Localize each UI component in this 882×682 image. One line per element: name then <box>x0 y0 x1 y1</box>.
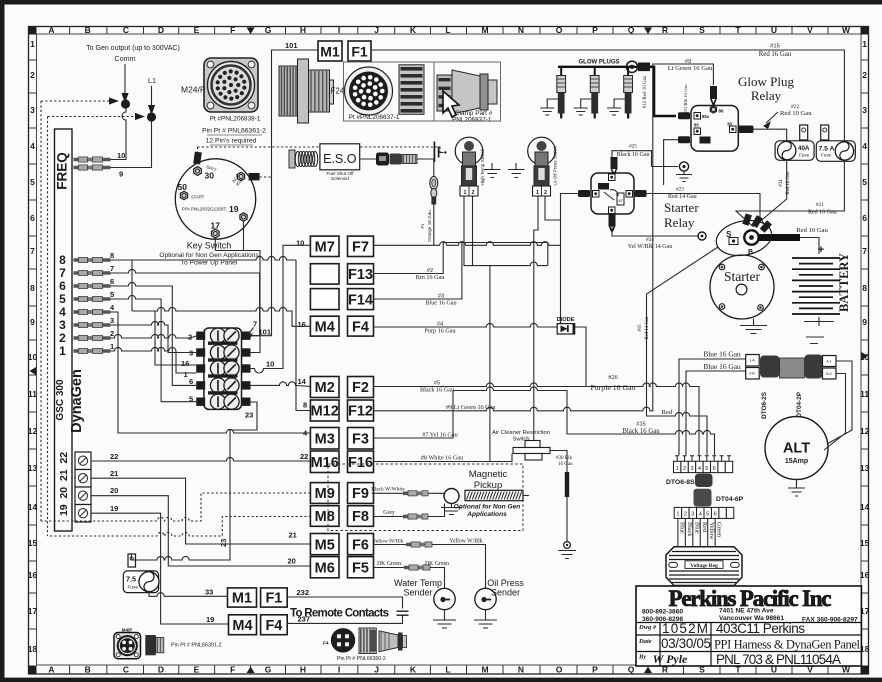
svg-text:G: G <box>265 665 272 675</box>
title block frame <box>636 586 861 666</box>
svg-text:N: N <box>518 25 524 35</box>
svg-text:Sender: Sender <box>403 588 432 598</box>
connector F16 box <box>348 451 374 473</box>
svg-text:1052M: 1052M <box>662 621 708 636</box>
svg-text:Lo Oil Press Switch: Lo Oil Press Switch <box>553 145 558 185</box>
svg-text:Purple 16 Gau: Purple 16 Gau <box>590 383 635 392</box>
svg-text:M16: M16 <box>311 455 339 471</box>
terminal block row 1 <box>196 332 205 340</box>
svg-text:F12: F12 <box>348 404 373 420</box>
svg-text:#25: #25 <box>629 144 637 150</box>
svg-text:8: 8 <box>30 283 35 293</box>
svg-text:To Remote Contacts: To Remote Contacts <box>290 608 389 620</box>
svg-text:15: 15 <box>860 538 870 548</box>
svg-text:4: 4 <box>59 305 66 319</box>
switch S2 lo oil press switch <box>528 137 556 165</box>
connector M1 plug drawing (ribbed cylinder) <box>279 66 298 116</box>
svg-text:M5: M5 <box>315 537 335 553</box>
svg-text:232: 232 <box>297 588 310 597</box>
wire 10 from FREQ to Comm node <box>111 108 127 160</box>
svg-text:101: 101 <box>259 328 272 337</box>
svg-text:1: 1 <box>30 39 35 49</box>
svg-text:B: B <box>85 25 91 35</box>
svg-text:Red 16 Gau: Red 16 Gau <box>808 210 837 216</box>
svg-text:403C11 Perkins: 403C11 Perkins <box>716 621 805 636</box>
svg-text:7: 7 <box>862 246 867 256</box>
svg-text:Yel W/Blk 14 Gau: Yel W/Blk 14 Gau <box>628 244 672 250</box>
svg-text:#26: #26 <box>608 374 618 381</box>
svg-text:F4: F4 <box>265 618 282 634</box>
svg-text:U: U <box>771 25 777 35</box>
connector M5 box <box>310 534 339 555</box>
svg-text:5: 5 <box>862 177 867 187</box>
svg-text:19: 19 <box>206 615 214 624</box>
svg-text:Pin Pt # PNL66360-2: Pin Pt # PNL66360-2 <box>337 656 386 662</box>
wire row4 to M3 <box>111 312 311 433</box>
E.S.O pigtail connectors <box>360 158 378 160</box>
svg-text:I: I <box>338 25 340 35</box>
svg-text:800-892-3860: 800-892-3860 <box>642 609 683 616</box>
key switch terminal 30 <box>194 167 202 176</box>
wire #12 thick from bus to glow relay <box>650 67 676 116</box>
capacitor symbol at E.S.O wire <box>434 142 438 163</box>
svg-text:P: P <box>592 25 598 35</box>
wire dashed to M8 <box>48 517 312 537</box>
svg-text:7401 NE 47th Ave: 7401 NE 47th Ave <box>719 608 774 615</box>
svg-text:Air Cleaner Restriction: Air Cleaner Restriction <box>492 430 550 436</box>
svg-text:GLOW PLUGS: GLOW PLUGS <box>579 60 620 66</box>
connector F24 box <box>344 62 501 121</box>
svg-text:12: 12 <box>860 426 870 436</box>
terminal strip row upper (DT06-8S) <box>674 456 733 473</box>
svg-text:Date: Date <box>638 638 652 645</box>
svg-text:M7: M7 <box>315 240 335 256</box>
DynaGen terminal numbers 8-1 <box>59 253 66 358</box>
connector F8 box <box>348 506 374 527</box>
connector M7 box <box>310 236 339 256</box>
key switch ACC plug <box>249 173 260 180</box>
svg-text:Fuse: Fuse <box>799 153 810 158</box>
svg-text:1: 1 <box>862 39 867 49</box>
svg-text:Green: Green <box>716 522 723 537</box>
svg-text:4: 4 <box>698 466 701 472</box>
svg-text:22: 22 <box>300 452 308 461</box>
svg-text:7: 7 <box>253 320 257 329</box>
wire #34 40A fuse to starter solenoid <box>757 160 787 224</box>
fuse 7.5A bottom left <box>123 571 158 593</box>
ground stub right <box>508 163 525 178</box>
svg-text:DK Green: DK Green <box>377 561 401 567</box>
svg-text:O: O <box>556 25 563 35</box>
svg-text:#15: #15 <box>636 422 645 428</box>
svg-text:Red 16 Gau: Red 16 Gau <box>759 51 792 58</box>
svg-text:5: 5 <box>30 177 35 187</box>
svg-text:20: 20 <box>288 557 296 566</box>
svg-text:M: M <box>481 25 488 35</box>
svg-text:#21: #21 <box>816 202 824 208</box>
starter solenoid <box>713 216 774 260</box>
ring terminal and ground for #25 <box>679 162 688 171</box>
svg-text:1: 1 <box>464 190 467 196</box>
svg-text:10: 10 <box>117 151 125 160</box>
FREQ / GSC300 DynaGen box <box>55 129 73 531</box>
svg-text:#24: #24 <box>646 237 654 243</box>
svg-text:B-2: B-2 <box>826 372 832 376</box>
glow relay terminal 85a plug <box>694 113 701 120</box>
svg-text:11: 11 <box>28 389 37 399</box>
svg-text:F2: F2 <box>352 380 369 396</box>
svg-text:13: 13 <box>860 463 870 473</box>
svg-text:M1: M1 <box>320 44 340 60</box>
connector M9 box <box>310 483 339 504</box>
svg-text:Blue: Blue <box>678 522 685 534</box>
svg-text:Sender: Sender <box>491 588 520 598</box>
svg-text:K: K <box>410 25 417 35</box>
relay K2 starter relay body <box>591 173 634 214</box>
svg-text:W: W <box>842 25 851 35</box>
svg-text:6: 6 <box>30 213 35 223</box>
wire M9 black w/white to magnetic pickup <box>372 493 444 496</box>
svg-text:F4: F4 <box>352 319 369 335</box>
svg-text:C: C <box>123 665 129 675</box>
key switch terminal BATT plug <box>193 152 202 165</box>
wire F13 #2 Brn to lo oil switch <box>374 243 548 274</box>
svg-text:Black 16 Gau: Black 16 Gau <box>617 152 650 158</box>
svg-text:E: E <box>194 665 200 675</box>
svg-text:#15: #15 <box>770 44 780 50</box>
svg-text:H: H <box>300 25 306 35</box>
bullet splice on E.S.O wire <box>430 177 438 190</box>
connector F3 box <box>348 428 374 450</box>
svg-text:Comm: Comm <box>114 54 135 63</box>
connector F2 box <box>348 377 374 398</box>
svg-text:6: 6 <box>59 279 66 293</box>
wire F3 #7 Yel <box>374 391 454 439</box>
starter relay right pin and plug <box>626 191 633 198</box>
svg-text:Red 14 Gau: Red 14 Gau <box>645 316 650 340</box>
svg-text:L1: L1 <box>148 76 156 85</box>
svg-text:Brn 16 Gau: Brn 16 Gau <box>416 274 445 281</box>
wire row5 to block row5 <box>111 295 197 401</box>
svg-text:A: A <box>48 25 54 35</box>
crimp terminal row 1 <box>74 349 111 353</box>
screw terminal 19 <box>75 505 91 523</box>
svg-text:O: O <box>556 665 563 675</box>
screw terminal 21 <box>75 470 91 488</box>
svg-text:R: R <box>662 25 668 35</box>
alternator ALT <box>765 417 828 480</box>
svg-text:#12 Red 10 Gau: #12 Red 10 Gau <box>643 75 648 108</box>
svg-text:6: 6 <box>189 377 193 386</box>
svg-text:To Gen output (up to 300VAC): To Gen output (up to 300VAC) <box>86 45 180 52</box>
svg-text:23: 23 <box>219 539 228 547</box>
svg-text:M8: M8 <box>315 509 335 525</box>
svg-text:22: 22 <box>58 452 70 464</box>
wire 33 from fuse to M1 bottom <box>149 592 228 596</box>
wire 8 horizontal from crimp row 8 to vertical <box>132 256 296 260</box>
wire dashed from border to L1 node <box>48 116 135 118</box>
svg-text:Blue 16 Gau: Blue 16 Gau <box>425 300 456 307</box>
connector M3 box <box>310 428 339 450</box>
spade terminal above 40A fuse <box>800 125 808 140</box>
svg-text:H: H <box>300 665 306 675</box>
svg-text:F5: F5 <box>352 560 369 576</box>
svg-text:Yellow W/Blk: Yellow W/Blk <box>373 539 404 545</box>
svg-text:P: P <box>592 665 598 675</box>
svg-text:1: 1 <box>59 344 66 358</box>
glow plug bus bar <box>558 66 640 68</box>
grid band centre arrows <box>247 28 255 35</box>
svg-text:8: 8 <box>59 253 66 267</box>
connector M4/P bottom flange <box>114 633 141 659</box>
svg-text:F13: F13 <box>348 267 373 283</box>
ground stub below link <box>564 542 571 549</box>
svg-text:14: 14 <box>28 502 38 512</box>
starter relay bottom pin and plug <box>609 207 616 214</box>
svg-text:FREQ: FREQ <box>55 152 70 190</box>
ground below starter <box>740 319 767 334</box>
connector F14 box <box>348 289 374 310</box>
mouse cursor artifact <box>443 91 459 117</box>
svg-text:PPI Harness & DynaGen Panel: PPI Harness & DynaGen Panel <box>714 638 861 652</box>
svg-text:19: 19 <box>58 504 70 516</box>
svg-text:DTO6-8S: DTO6-8S <box>666 479 695 486</box>
svg-text:Fuse: Fuse <box>128 585 139 591</box>
svg-text:8: 8 <box>303 401 307 410</box>
wire row3 to block row2 <box>111 321 197 352</box>
svg-text:Pt #PNL206838-1: Pt #PNL206838-1 <box>210 116 261 123</box>
svg-text:7: 7 <box>110 264 114 273</box>
svg-text:2: 2 <box>59 331 66 345</box>
ground for glow plug <box>540 99 558 115</box>
svg-text:J: J <box>374 25 379 35</box>
svg-text:F9: F9 <box>352 486 369 502</box>
svg-text:8: 8 <box>110 251 114 260</box>
screw terminal 22 <box>75 452 91 470</box>
svg-text:Oil Press: Oil Press <box>487 578 524 588</box>
svg-text:DIODE: DIODE <box>557 317 575 323</box>
svg-text:#34: #34 <box>779 179 784 187</box>
svg-text:M4: M4 <box>232 618 252 634</box>
connector unlabeled box <box>310 289 339 310</box>
connector M6 box <box>310 557 339 578</box>
svg-text:DT04-6P: DT04-6P <box>716 496 744 503</box>
svg-text:3: 3 <box>30 105 35 115</box>
svg-text:3: 3 <box>691 512 694 518</box>
svg-text:2: 2 <box>472 190 475 196</box>
svg-text:N: N <box>518 665 524 675</box>
svg-text:85: 85 <box>694 123 699 128</box>
svg-text:5: 5 <box>110 290 114 299</box>
ground below ALT <box>788 480 805 497</box>
svg-text:D: D <box>158 25 164 35</box>
svg-text:16: 16 <box>860 570 870 580</box>
ground below Water Temp sender <box>433 610 456 628</box>
svg-text:FAX 360-906-8297: FAX 360-906-8297 <box>802 617 858 624</box>
svg-text:PNL206837-1: PNL206837-1 <box>452 117 492 124</box>
wire F12 #9 Lt Green to glow plug relay <box>374 64 714 411</box>
svg-text:M9: M9 <box>315 486 335 502</box>
svg-text:10: 10 <box>266 360 274 369</box>
svg-text:M4: M4 <box>315 319 335 335</box>
connector F12 box <box>348 400 374 421</box>
svg-text:#7 Yel 16 Gau: #7 Yel 16 Gau <box>422 432 457 439</box>
svg-text:3: 3 <box>110 316 114 325</box>
wire Blue 16 Gau pair to DT connector <box>679 359 746 455</box>
glow relay terminal 86 and plug <box>710 106 716 113</box>
relay K1 glow plug relay body <box>691 106 738 152</box>
solenoid B terminal <box>744 230 758 244</box>
svg-text:Red 10 Gau: Red 10 Gau <box>796 227 828 234</box>
wire from collector down to air cleaner line <box>489 266 491 462</box>
solenoid studs <box>742 213 752 225</box>
svg-text:2: 2 <box>683 466 686 472</box>
wire F4 #4 Purp to diode <box>374 323 558 327</box>
svg-text:2: 2 <box>862 70 867 80</box>
connector M4/P backshell <box>145 635 156 655</box>
svg-text:10: 10 <box>860 352 870 362</box>
svg-text:F8: F8 <box>352 509 369 525</box>
svg-text:6: 6 <box>110 277 114 286</box>
svg-text:I: I <box>338 665 340 675</box>
svg-text:10: 10 <box>296 239 304 248</box>
svg-text:F3: F3 <box>352 431 369 447</box>
sender Water Temp <box>434 588 455 609</box>
svg-text:B: B <box>748 249 753 256</box>
svg-text:Water Temp: Water Temp <box>394 578 442 588</box>
svg-text:9: 9 <box>30 317 35 327</box>
svg-text:Purp 16 Gau: Purp 16 Gau <box>424 328 455 335</box>
svg-text:Optional for Non Gen Applicati: Optional for Non Gen Applications <box>159 252 259 259</box>
starter relay coil <box>598 183 609 190</box>
svg-text:DT04-2P: DT04-2P <box>796 391 803 417</box>
svg-text:Black: Black <box>686 522 693 537</box>
svg-text:Red 10 Gau: Red 10 Gau <box>780 110 812 117</box>
svg-text:5: 5 <box>705 466 708 472</box>
svg-text:S: S <box>699 25 705 35</box>
diode D1 box <box>557 324 575 334</box>
connector F7 box <box>348 236 374 256</box>
svg-text:16: 16 <box>298 320 306 329</box>
svg-text:2: 2 <box>110 329 114 338</box>
wire dashed leader from 12-pins note <box>198 147 441 153</box>
svg-text:1: 1 <box>676 466 679 472</box>
wire from E.S.O down to F7 <box>417 159 434 245</box>
svg-text:Applications: Applications <box>466 511 507 518</box>
svg-text:V: V <box>807 25 813 35</box>
connector F1 box <box>348 41 371 61</box>
crimp terminal row 2 <box>74 336 111 340</box>
wire 20 from screw 20 to M6 <box>91 496 311 566</box>
wire from starter relay left pin down to diode <box>561 194 579 324</box>
svg-text:Relay: Relay <box>751 88 782 103</box>
svg-text:Voltage Reg: Voltage Reg <box>690 563 718 569</box>
svg-text:START: START <box>191 195 205 200</box>
voltage reg wire names <box>677 518 679 547</box>
wire 23 from terminal block to 7.5A fuse <box>131 402 257 560</box>
wire F14 #3 Blue joins collector <box>374 243 462 300</box>
wire F16 #8 White to air cleaner switch <box>374 454 513 462</box>
svg-text:PNL 703 & PNL11054A: PNL 703 & PNL11054A <box>716 652 841 667</box>
voltage regulator <box>666 547 742 586</box>
ground stub left of switches <box>484 163 501 178</box>
screw terminal 20 <box>75 487 91 505</box>
svg-text:P/N PNL2832G1158T: P/N PNL2832G1158T <box>182 207 227 212</box>
svg-text:#30 Blk: #30 Blk <box>556 456 572 461</box>
glow relay coil <box>700 137 711 144</box>
ground below Oil Press sender <box>474 610 497 628</box>
svg-text:15: 15 <box>28 538 38 548</box>
svg-text:17: 17 <box>28 606 38 616</box>
svg-text:87: 87 <box>619 198 624 203</box>
svg-text:1: 1 <box>676 512 679 518</box>
wire M6 DK Green to water temp sender <box>374 568 445 589</box>
svg-text:GSC 300: GSC 300 <box>55 379 66 421</box>
svg-text:14: 14 <box>860 502 870 512</box>
svg-text:16: 16 <box>28 570 38 580</box>
svg-text:T: T <box>735 25 741 35</box>
svg-text:M6: M6 <box>315 560 335 576</box>
svg-text:11: 11 <box>860 389 869 399</box>
thick battery cable from B <box>758 234 800 241</box>
fuse 40A <box>775 141 814 161</box>
svg-text:03/30/05: 03/30/05 <box>661 636 711 651</box>
wire #21 7.5A fuse to starter solenoid <box>736 160 844 227</box>
wire row8 to node16 <box>111 260 133 311</box>
crimp terminal row 8 <box>74 258 111 262</box>
wire net 16 from row8 via block row3 to M4 <box>132 307 310 326</box>
svg-text:#8 White 16 Gau: #8 White 16 Gau <box>421 455 463 462</box>
solenoid E.S.O box <box>320 144 360 170</box>
wire 10 from block row3 to M7 <box>251 245 311 373</box>
wire #24 starter relay to solenoid S ring <box>612 227 699 237</box>
wire M8 grey to magnetic pickup <box>374 504 445 517</box>
connector F4 box <box>348 316 374 336</box>
svg-text:20: 20 <box>58 487 70 499</box>
svg-text:13: 13 <box>28 463 38 473</box>
svg-text:3: 3 <box>59 318 66 332</box>
svg-text:14: 14 <box>298 377 307 386</box>
svg-text:Blue: Blue <box>693 522 700 534</box>
svg-text:19: 19 <box>229 204 239 214</box>
svg-text:16 Gau: 16 Gau <box>558 462 573 467</box>
svg-text:D: D <box>158 665 164 675</box>
svg-text:Lt Green 16 Gau: Lt Green 16 Gau <box>668 65 713 72</box>
glow plug at x=594.7 <box>594 67 596 76</box>
ground magnetic pickup <box>441 504 462 515</box>
svg-text:40A: 40A <box>798 145 810 152</box>
svg-text:F: F <box>230 25 235 35</box>
connector M12 box <box>310 400 339 421</box>
svg-text:85a: 85a <box>702 114 710 119</box>
svg-text:E: E <box>194 25 200 35</box>
svg-text:L: L <box>445 665 450 675</box>
wire row6 to block row4 <box>111 282 197 385</box>
spade terminal above 7.5A fuse <box>821 125 829 140</box>
svg-text:Pt #PNL206637-1: Pt #PNL206637-1 <box>349 114 400 121</box>
svg-text:F7: F7 <box>352 240 369 256</box>
svg-text:6: 6 <box>713 466 716 472</box>
svg-text:F4: F4 <box>323 641 329 647</box>
terminal block row 5 <box>196 398 205 406</box>
ground for glow plug <box>574 99 592 115</box>
wire 21 from screw 21 to M5 <box>91 478 311 544</box>
svg-text:50: 50 <box>178 182 188 192</box>
connector unlabeled box <box>310 264 339 284</box>
wire #22 glow relay 30 to 40A fuse <box>754 129 787 142</box>
svg-text:W Pyle: W Pyle <box>653 652 688 666</box>
terminal block row 4 <box>196 381 205 389</box>
